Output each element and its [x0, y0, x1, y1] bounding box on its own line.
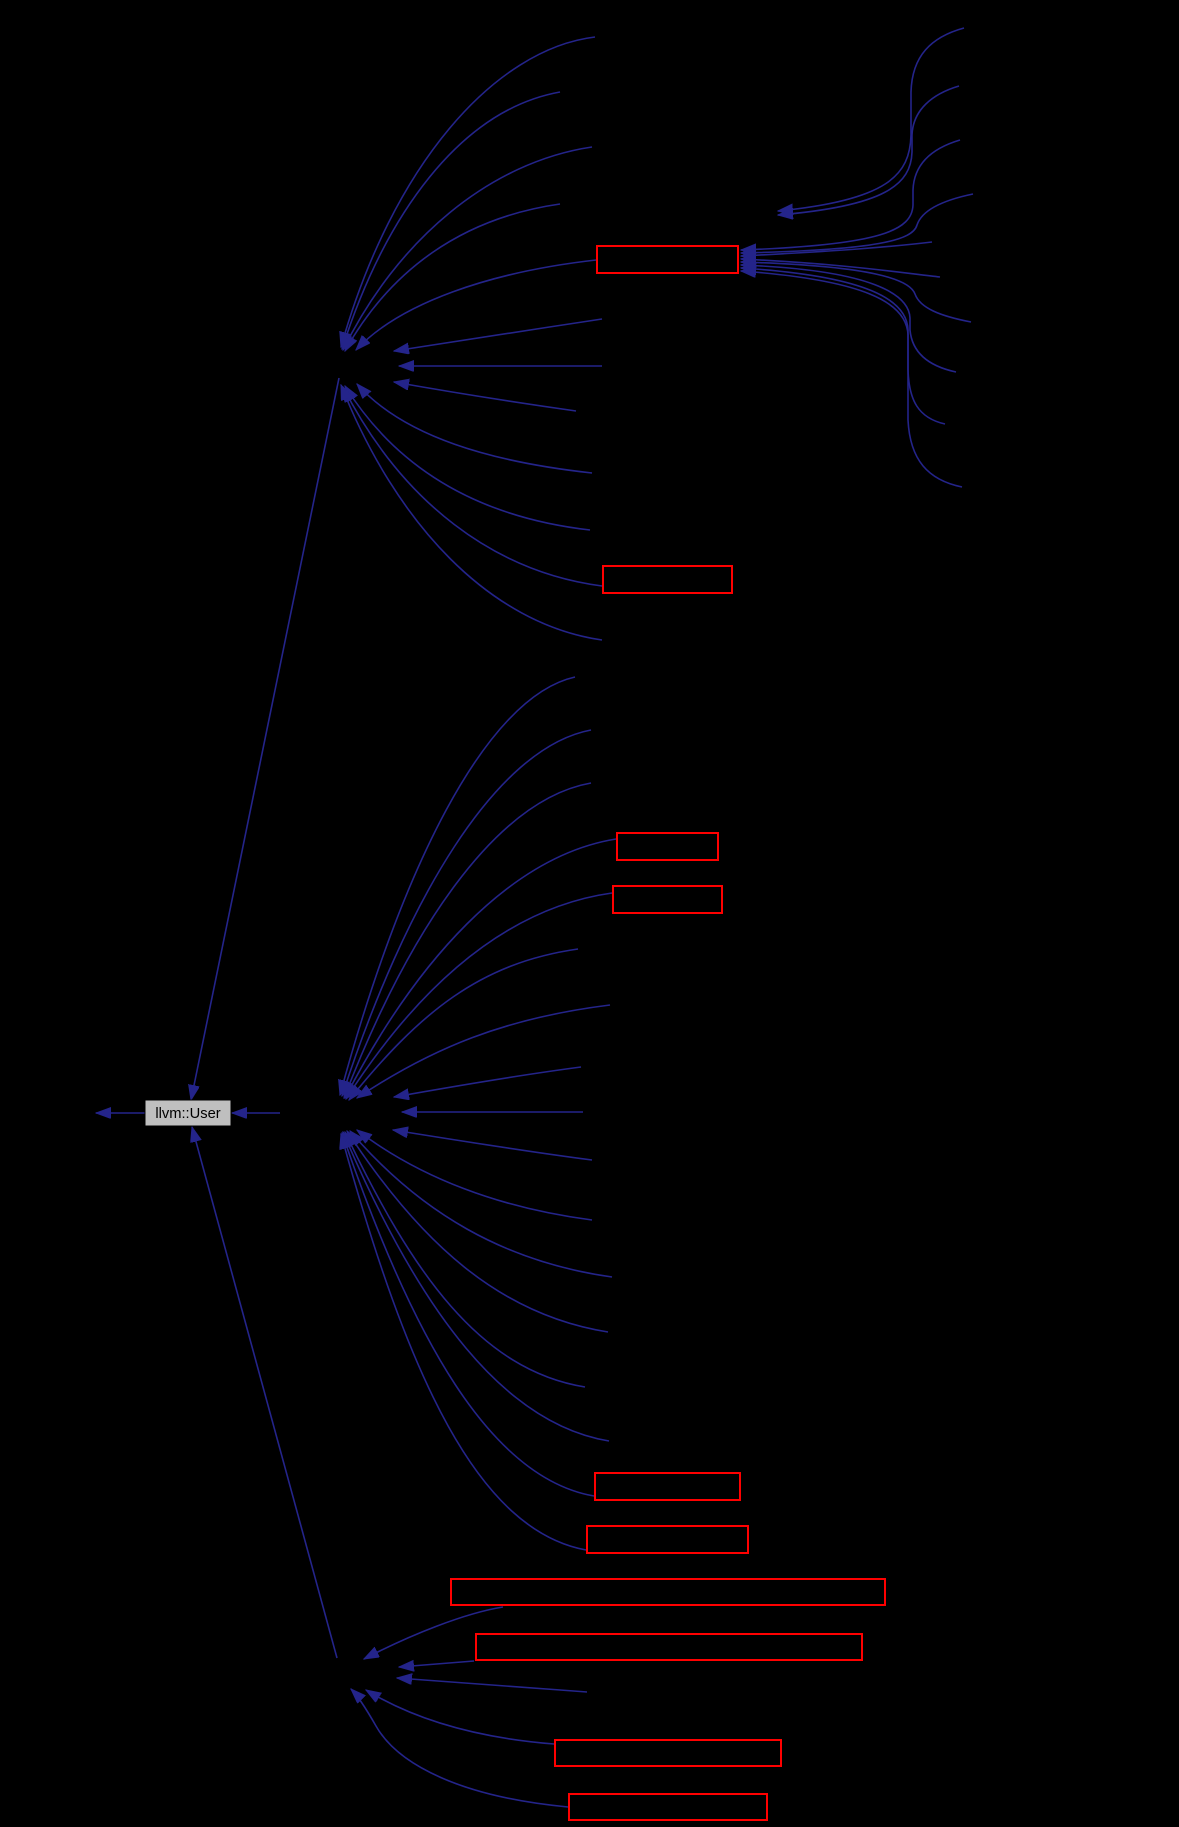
edge e6 from B5 to H4 [342, 1133, 594, 1496]
edge d1 to H1 [341, 37, 595, 347]
red node B10 [569, 1794, 767, 1820]
edge DerivedUser to User [232, 1112, 280, 1114]
red node B7 [451, 1579, 885, 1605]
edge d2 to H1 [342, 92, 560, 349]
edge r8 to B1 [741, 265, 956, 372]
edge a5 [402, 1111, 583, 1113]
edge e7 from B6 to H4 [341, 1134, 586, 1550]
edge c5 from B4 to H3 [346, 893, 612, 1099]
edge f2 from B8 [399, 1661, 474, 1667]
edge a2 [399, 365, 602, 367]
red node B5 [595, 1473, 740, 1500]
edge b2 to H2 [345, 386, 590, 530]
edge r5 to B1 [741, 242, 932, 256]
red node B1 [597, 246, 738, 273]
edge a6 [393, 1130, 592, 1160]
edge f3 [397, 1678, 587, 1692]
edge b4 to H2 [341, 385, 602, 640]
edge r2 [778, 86, 959, 215]
red node B2 [603, 566, 732, 593]
edge c1 to H3 [340, 677, 575, 1095]
edge b1 to H2 [357, 384, 592, 473]
red node B6 [587, 1526, 748, 1553]
edge c3 to H3 [344, 783, 591, 1098]
edge c2 to H3 [342, 730, 591, 1096]
edge d3 to H1 [343, 147, 592, 350]
red node B8 [476, 1634, 862, 1660]
edge r7 to B1 [741, 262, 971, 322]
edge Operator to User [192, 1127, 337, 1658]
red node B9 [555, 1740, 781, 1766]
edge c6 to H3 [349, 949, 578, 1100]
edge e5 to H4 [343, 1132, 609, 1441]
edge a4 [394, 1067, 581, 1097]
edge e2 to H4 [350, 1131, 612, 1277]
edge r4 to B1 [741, 194, 973, 253]
edge r1 [778, 28, 964, 211]
edge c4 from B3 to H3 [345, 839, 616, 1098]
node llvm::User [145, 1100, 231, 1126]
edge f4 from B9 [366, 1690, 554, 1744]
edge c7 to H3 [357, 1005, 610, 1098]
edge r9 to B1 [741, 268, 945, 424]
edge r10 to B1 [741, 271, 962, 487]
edge a1 [394, 319, 602, 351]
edge r6 to B1 [741, 259, 940, 277]
red node B3 [617, 833, 718, 860]
edge e3 to H4 [347, 1131, 608, 1332]
edge d4 to H1 [345, 204, 560, 351]
edge e1 to H4 [357, 1130, 592, 1220]
edge r3 to B1 [741, 140, 960, 250]
edge f1 from B7 [364, 1607, 503, 1659]
red node B4 [613, 886, 722, 913]
svg-text:llvm::User: llvm::User [155, 1106, 220, 1122]
edge d5 from B1 to H1 [356, 260, 596, 350]
edge User to Value [96, 1112, 145, 1114]
edge a3 [394, 382, 576, 411]
edge f5 from B10 [351, 1689, 568, 1807]
edge Constant to User [191, 378, 339, 1100]
edge b3 from B2 to H2 [343, 387, 602, 586]
edge e4 to H4 [345, 1132, 585, 1387]
